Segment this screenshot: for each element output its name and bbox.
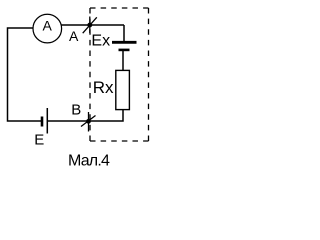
terminal post at node B: [88, 112, 90, 132]
dashed enclosure box: [90, 7, 149, 9]
node B junction dot: [86, 119, 91, 124]
battery Ex long plate: [112, 41, 137, 44]
svg-text:E: E: [34, 132, 44, 149]
slash mark at node B: [81, 116, 96, 127]
wire: [47, 120, 88, 122]
svg-text:B: B: [71, 102, 81, 119]
terminal post at node A: [89, 17, 91, 34]
svg-text:A: A: [43, 18, 53, 34]
svg-text:Мал.4: Мал.4: [68, 153, 110, 170]
wire: [89, 110, 124, 121]
battery E long plate: [46, 108, 48, 134]
svg-text:Ex: Ex: [91, 33, 110, 50]
ammeter A1: [33, 14, 62, 43]
resistor Rx: [116, 70, 130, 109]
svg-text:Rx: Rx: [93, 78, 114, 97]
wire: [123, 25, 125, 42]
wire: [61, 24, 124, 26]
svg-text:A: A: [69, 28, 79, 44]
wire: [122, 51, 124, 70]
slash mark at node A: [83, 17, 97, 33]
node A junction dot: [87, 23, 92, 28]
battery Ex short plate: [119, 49, 130, 52]
battery E short plate: [41, 117, 44, 127]
wire: [8, 28, 42, 121]
